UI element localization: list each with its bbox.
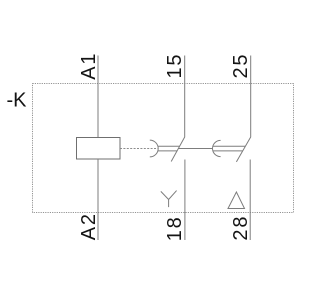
delay arc of contact 25-28 <box>212 140 220 156</box>
wire 25 and moving contact lever <box>236 56 250 162</box>
link wire contact 15-18 to contact 25-28 <box>178 148 212 150</box>
svg-text:28: 28 <box>230 215 252 241</box>
wire 18 stub <box>184 160 186 241</box>
fixed bridge lines of contact 25-28 <box>213 146 246 151</box>
wire 28 stub <box>249 160 251 241</box>
star (wye) function symbol <box>161 191 177 208</box>
mechanical link (dashed) coil to contact 15-18 <box>120 148 158 150</box>
fixed bridge lines of contact 15-18 <box>158 146 180 151</box>
coil K <box>77 138 121 160</box>
delay arc of contact 15-18 <box>150 140 158 157</box>
wire 15 and moving contact lever <box>171 56 185 162</box>
relay enclosure dashed outline <box>33 84 294 213</box>
wire A1 to coil <box>97 56 99 138</box>
wire coil to A2 <box>97 159 99 240</box>
svg-text:15: 15 <box>164 53 186 79</box>
svg-text:A1: A1 <box>78 52 100 80</box>
svg-text:18: 18 <box>164 215 186 241</box>
svg-text:25: 25 <box>230 53 252 79</box>
svg-text:A2: A2 <box>78 212 100 240</box>
svg-text:-K: -K <box>7 90 28 112</box>
delta function symbol <box>228 192 245 209</box>
